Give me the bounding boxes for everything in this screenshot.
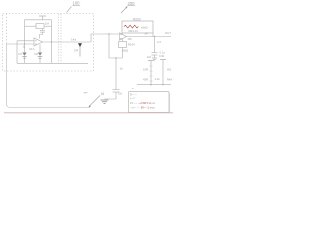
power symbol T divider 1 [148,60,154,62]
svg-text:24: 24 [145,32,149,36]
svg-text:|—1: |—1 [130,96,135,100]
optical barrier dashed partition [58,14,60,63]
wire divider branch 2 [162,60,164,85]
svg-text:±5kΩ: ±5kΩ [141,25,148,29]
svg-text:—o—·— 5V—·1 amp: —o—·— 5V—·1 amp [130,106,155,110]
callout 200 leader [121,7,127,13]
svg-text:U1A: U1A [29,47,35,51]
svg-text:B——: B—— [130,92,137,96]
svg-text:2.2: 2.2 [157,40,161,44]
wire inverting input [7,43,35,45]
resistor R1 [36,24,44,29]
wire left branch [24,20,26,44]
junction node A [108,33,109,34]
svg-text:RES-01: RES-01 [129,29,139,33]
diode D2 [39,45,41,53]
wire divider branch 1 [150,61,152,85]
page rule line [4,112,173,114]
wire divider bottom [137,84,171,86]
power symbol T divider 2 [160,59,166,61]
junction node B [115,57,116,58]
resistor R201 zigzag [124,25,138,28]
capacitor C1 [40,29,45,31]
svg-text:15R: 15R [143,68,148,72]
callout arrow 14 [78,43,82,47]
dashed enclosure 100 (outer) [3,14,94,72]
junction D1 top [24,43,25,44]
feedback box R200 [122,21,153,33]
svg-text:200: 200 [128,1,136,6]
svg-text:1.4v: 1.4v [155,77,161,81]
svg-text:141: 141 [147,55,152,59]
ground [101,99,109,101]
wire ground return loop [7,44,91,108]
callout 100 leader [67,7,72,13]
svg-text:P.1·— —2.5W ± A out: P.1·— —2.5W ± A out [130,101,155,105]
svg-text:OUT: OUT [165,31,171,35]
junction output cap [154,36,155,37]
svg-text:W2: W2 [167,68,172,72]
svg-text:435: 435 [128,38,133,41]
wire right branch [51,20,53,64]
power VCC symbol T [39,15,46,17]
ground rail [17,62,88,64]
wire U1 output step-up [91,34,119,42]
op-amp U2 pin marks [120,34,121,36]
svg-text:10kΩ: 10kΩ [122,49,129,53]
tick mark w [84,92,88,94]
svg-text:16: 16 [101,92,105,96]
wire feedback left leg [121,33,123,34]
capacitor C2 [113,89,120,91]
svg-text:=: = [132,86,134,90]
svg-text:Rk4: Rk4 [167,78,172,82]
resistor R104 [119,42,127,48]
wire feedback right leg [152,33,154,37]
svg-text:43R: 43R [143,78,148,82]
svg-text:100: 100 [73,1,81,6]
svg-text:1c: 1c [23,45,26,48]
wire C2 to ground [105,92,117,99]
svg-text:C40: C40 [159,54,165,58]
svg-text:R200: R200 [133,17,141,21]
svg-text:D2: D2 [35,52,39,56]
dashed enclosure inner left edge [6,14,8,45]
wire divider drop [115,58,117,90]
op-amp U1 pin marks [35,40,37,42]
resistor R302 ticks [150,75,153,77]
capacitor C3 [154,37,156,53]
ground C3 [152,57,157,59]
resistor R301 ticks [150,65,153,67]
wire U1 output [43,41,92,43]
svg-text:1b: 1b [120,67,124,71]
annotation box [129,92,170,113]
diode D1 [24,44,26,53]
wire U2 output [127,36,172,38]
wire cap to op-amp [40,35,43,39]
svg-text:10n: 10n [118,93,123,96]
ground rail left stub [16,41,18,64]
junction divider bottom [150,84,151,85]
wire node A drop [109,34,123,58]
svg-text:14a: 14a [71,38,76,42]
wire non-inverting input [17,40,34,42]
callout 16 leader [89,96,100,107]
junction feedback [51,41,52,42]
svg-text:D1: D1 [19,52,23,56]
wire top rail [25,19,52,21]
svg-text:1M: 1M [45,22,50,26]
op-amp U2 [120,33,127,40]
svg-text:14: 14 [74,48,78,52]
svg-text:R104: R104 [128,43,135,47]
op-amp U1 [34,38,43,46]
wire mid rung [25,25,37,27]
